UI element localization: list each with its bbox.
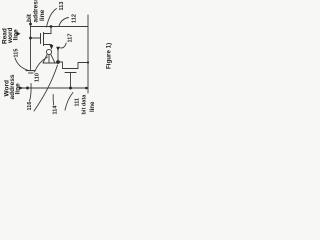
svg-text:117: 117 xyxy=(68,34,74,43)
junction dot H2 at V2 xyxy=(85,87,88,90)
svg-text:line: line xyxy=(15,83,22,95)
arrowhead storage node down xyxy=(56,47,60,52)
junction dot Q1 gate tap xyxy=(29,37,32,40)
wire: bottom horizontal H2 word address line xyxy=(23,87,88,89)
svg-text:111: 111 xyxy=(75,98,81,107)
svg-text:line: line xyxy=(90,101,96,112)
wire: top horizontal H1 xyxy=(31,26,89,28)
arrowhead read word line xyxy=(17,32,21,37)
junction dot at bit address text xyxy=(29,23,32,26)
capacitor C1 plate 1 xyxy=(26,70,35,72)
svg-text:Figure 1): Figure 1) xyxy=(106,43,113,69)
wire: bit address line vertical V1 xyxy=(30,22,32,70)
svg-text:114: 114 xyxy=(53,105,59,115)
svg-text:116: 116 xyxy=(27,102,33,111)
svg-text:113: 113 xyxy=(59,2,65,11)
transistor Q2 gate bar xyxy=(65,72,76,74)
node island triangle left side xyxy=(43,54,47,63)
transistor Q2 channel bar xyxy=(63,68,79,70)
arrowhead word address line xyxy=(19,86,24,90)
leader arc for label 113 xyxy=(47,9,57,28)
storage node dot xyxy=(56,60,60,64)
wire: bit data line vertical V2 xyxy=(87,15,89,93)
leader arc for label 111 xyxy=(65,93,73,111)
junction dot Q1 drain on H1 xyxy=(50,25,53,28)
leader arc for label 116 big arc to storage node xyxy=(34,65,58,111)
transistor Q2 gate lead xyxy=(70,73,72,89)
svg-text:line: line xyxy=(13,29,20,41)
junction dot Q2 gate on H2 xyxy=(69,87,72,90)
transistor Q2 right lead xyxy=(78,63,88,69)
leader arc for label 110 xyxy=(35,57,48,72)
leader arc for label 112 xyxy=(59,18,69,27)
leader line for label 116 to word address line xyxy=(30,84,32,102)
svg-text:112: 112 xyxy=(72,14,78,23)
node island triangle base xyxy=(43,62,57,64)
transistor Q1 drain lead xyxy=(44,27,52,34)
node island symbol circle xyxy=(46,49,51,54)
svg-text:line: line xyxy=(39,9,46,21)
transistor Q1 gate lead xyxy=(31,37,41,39)
svg-text:115: 115 xyxy=(14,49,20,58)
transistor Q2 left lead xyxy=(58,62,63,69)
node island triangle right side xyxy=(51,54,55,63)
wire: storage node vertical xyxy=(57,51,59,63)
leader line for label 114 xyxy=(52,95,54,106)
svg-text:110: 110 xyxy=(35,73,41,82)
leader arc for label 117 xyxy=(59,43,66,48)
transistor Q1 source lead xyxy=(44,44,52,46)
junction dot Q2 lead at V2 xyxy=(87,61,89,63)
transistor Q1 gate bar xyxy=(40,34,42,44)
transistor Q1 channel bar xyxy=(43,33,45,46)
leader arc for label 115 xyxy=(15,58,29,71)
arrowhead Q1 source down xyxy=(50,45,54,50)
node island inner stem xyxy=(48,55,50,63)
junction dot on H2 left xyxy=(26,87,29,90)
capacitor C1 plate 2 xyxy=(29,72,34,74)
svg-text:bit data: bit data xyxy=(81,94,87,115)
